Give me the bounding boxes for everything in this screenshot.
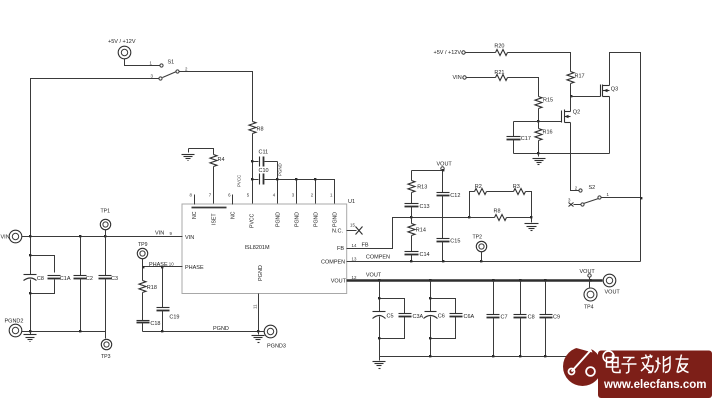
svg-text:8: 8 [190, 193, 193, 198]
svg-text:13: 13 [352, 257, 357, 262]
wire VOUT rail (pin 12, heavy) [347, 279, 603, 281]
svg-text:15: 15 [350, 223, 355, 228]
junction dots COMPEN line [410, 260, 482, 262]
wire R4 to pin 7 ISET [213, 167, 215, 205]
svg-text:R8: R8 [257, 127, 264, 133]
ground rail (input) [22, 331, 106, 333]
junction dots PHASE [142, 266, 163, 268]
transistor Q2 [562, 110, 581, 123]
svg-text:C3: C3 [111, 276, 118, 282]
svg-text:C7: C7 [501, 315, 508, 321]
junction dots VOUT rail [378, 279, 592, 282]
resistor R16 [535, 122, 553, 154]
wire loop C3A [380, 299, 405, 339]
svg-text:PGND: PGND [213, 326, 229, 332]
svg-text:C1A: C1A [60, 276, 71, 282]
test point TP3 [101, 339, 112, 360]
wire gate line to Q2 [514, 121, 562, 123]
rotated pin names top row [192, 211, 339, 228]
PGND rail to pins 4..1 [265, 180, 335, 205]
svg-text:9: 9 [170, 231, 173, 236]
resistor R20 [494, 43, 507, 55]
capacitor C1A [48, 276, 71, 283]
capacitor C13 [405, 204, 430, 224]
svg-text:PGND2: PGND2 [5, 319, 24, 325]
svg-text:5: 5 [247, 193, 250, 198]
svg-text:R17: R17 [575, 74, 585, 80]
svg-text:R18: R18 [147, 285, 157, 291]
pin 15 N.C. stub with no-connect X [332, 223, 363, 235]
capacitor C2 branch [74, 237, 93, 332]
svg-text:R8: R8 [494, 209, 501, 215]
ground (output rail) [373, 357, 386, 369]
svg-text:N.C.: N.C. [332, 228, 343, 234]
svg-text:4: 4 [273, 193, 276, 198]
svg-text:VOUT: VOUT [605, 290, 621, 296]
capacitor C12 [437, 193, 461, 239]
svg-text:R15: R15 [543, 98, 553, 104]
svg-text:R16: R16 [543, 130, 553, 136]
svg-text:VIN: VIN [185, 235, 194, 241]
wire R20 to R17 corner [508, 53, 571, 72]
pin 3 stub [296, 180, 298, 205]
terminal PGND2 [5, 319, 24, 337]
ground (right section) [533, 154, 546, 165]
svg-text:3: 3 [151, 74, 154, 79]
ground (R4 branch) [182, 149, 195, 161]
wire from +5V terminal to S1 upper contact [125, 59, 160, 66]
junction dots PVCC/PGND rails [251, 160, 316, 180]
resistor R18 [139, 267, 157, 321]
node S2/enable junction [640, 197, 642, 199]
watermark box [598, 351, 712, 398]
capacitor C5 branch (polarized) [373, 281, 394, 357]
svg-text:TP1: TP1 [101, 209, 111, 215]
svg-text:PHASE: PHASE [185, 265, 204, 271]
capacitor C3 branch [99, 237, 119, 339]
svg-text:R13: R13 [417, 185, 427, 191]
wire S1 common to PVCC feed corner [180, 72, 253, 122]
svg-text:C8: C8 [528, 315, 535, 321]
ground (input rail) [24, 332, 37, 342]
test point circle over watermark [603, 351, 614, 362]
svg-text:COMPEN: COMPEN [366, 255, 390, 261]
svg-text:C19: C19 [169, 315, 179, 321]
terminal VOUT [603, 274, 620, 295]
pin 2 stub [315, 180, 317, 205]
switch S2 [568, 185, 610, 207]
svg-text:C9: C9 [553, 315, 560, 321]
wire VIN rail down to C8 branch [30, 237, 32, 275]
svg-text:TP9: TP9 [138, 242, 148, 248]
svg-text:NC: NC [192, 211, 198, 219]
resistor R4 [210, 155, 225, 167]
svg-text:FB: FB [362, 243, 369, 249]
pin 8 stub NC [194, 195, 196, 205]
capacitor C9 branch [540, 281, 561, 357]
ground rail (output) [380, 356, 604, 358]
svg-text:C3A: C3A [413, 314, 424, 320]
svg-text:S1: S1 [168, 60, 175, 66]
net connector VIN (right section) [453, 75, 467, 81]
svg-text:S2: S2 [589, 185, 596, 191]
svg-text:2: 2 [185, 67, 188, 72]
capacitor C19 branch [157, 267, 180, 332]
svg-text:2: 2 [575, 186, 578, 191]
svg-text:TP2: TP2 [473, 235, 483, 241]
capacitor C8 (polarized input) [24, 275, 44, 332]
resistor R2 [475, 184, 514, 195]
net connector +5V/+12V (right section) [434, 50, 466, 56]
svg-text:+5V / +12V: +5V / +12V [434, 50, 462, 56]
junction dots PGND rail [161, 330, 259, 332]
svg-text:7: 7 [209, 193, 212, 198]
node VIN junction dots [29, 235, 106, 237]
node Q2 gate junction [537, 120, 539, 122]
svg-text:C15: C15 [450, 239, 460, 245]
wire +5V to R20 [466, 52, 496, 54]
svg-text:1: 1 [330, 193, 333, 198]
wire branch up to R2/R3 [470, 192, 475, 218]
net connector VOUT (rail end) [580, 269, 596, 281]
wire to R8 feedback [470, 217, 495, 219]
switch S1 [150, 60, 189, 81]
capacitor C6A [450, 314, 475, 321]
svg-text:C8: C8 [37, 276, 44, 282]
svg-text:VOUT: VOUT [437, 162, 453, 168]
wire VIN to R21 [467, 77, 496, 79]
svg-text:VIN: VIN [1, 235, 10, 241]
svg-text:R3: R3 [513, 184, 520, 190]
wire VOUT to R13 [412, 170, 443, 172]
svg-text:PGND: PGND [276, 212, 282, 227]
svg-text:R4: R4 [218, 157, 225, 163]
pin 11 PGND bottom stub [258, 294, 260, 332]
junction dots C8 loop [29, 254, 31, 294]
svg-text:C6A: C6A [464, 314, 475, 320]
svg-text:C10: C10 [259, 168, 269, 174]
wire R21 to R15 [508, 78, 539, 97]
wire ground to R4 [189, 149, 214, 155]
svg-text:1: 1 [607, 192, 610, 197]
net connector VOUT (compensation) [437, 162, 453, 193]
svg-text:+5V / +12V: +5V / +12V [108, 39, 136, 45]
svg-text:U1: U1 [348, 199, 355, 205]
svg-text:C13: C13 [420, 204, 430, 210]
svg-text:PGND3: PGND3 [267, 344, 286, 350]
svg-text:C12: C12 [450, 193, 460, 199]
svg-text:14: 14 [352, 243, 357, 248]
capacitor C3A [399, 314, 424, 321]
pin 6 stub NC [232, 195, 234, 205]
svg-text:Q2: Q2 [573, 110, 580, 116]
svg-text:R14: R14 [416, 228, 426, 234]
capacitor C10 [253, 168, 269, 185]
svg-text:VOUT: VOUT [366, 273, 382, 279]
wire COMPEN line from pin 13 [347, 261, 641, 263]
svg-text:C11: C11 [259, 150, 269, 156]
svg-text:COMPEN: COMPEN [321, 260, 345, 266]
svg-text:C2: C2 [86, 276, 93, 282]
resistor R3 [513, 184, 532, 223]
ground (pin 11) [252, 332, 265, 343]
wire loop C6A [431, 299, 456, 339]
capacitor C17 branch [507, 122, 531, 154]
power terminal +5V/+12V (top-left) [108, 39, 136, 59]
wire loop for C1A [31, 256, 55, 294]
svg-text:TP3: TP3 [101, 354, 111, 360]
ground (feedback divider) [525, 224, 539, 231]
resistor R17 [567, 72, 585, 97]
svg-text:VOUT: VOUT [331, 278, 347, 284]
pin 9 VIN stub [171, 236, 183, 238]
wire R8 to IC pin 5 PVCC [252, 134, 254, 205]
svg-text:C5: C5 [387, 314, 394, 320]
terminal VIN (left) [1, 230, 22, 243]
ground rail (right section) [514, 153, 610, 155]
svg-text:10: 10 [169, 261, 174, 266]
watermark CJK title (drawn glyphs) [607, 355, 689, 374]
node FB divider junction [410, 216, 412, 218]
svg-text:NC: NC [231, 211, 237, 219]
svg-text:PHASE: PHASE [149, 262, 168, 268]
capacitor C15 [437, 239, 461, 262]
junction dots ground rail [29, 330, 81, 332]
wire FB from pin 14 [347, 218, 470, 249]
PGND rail (bottom of IC) [143, 331, 265, 333]
capacitor C8 (output) branch [514, 281, 535, 357]
svg-text:1: 1 [150, 61, 153, 66]
pin 10 PHASE stub [171, 266, 183, 268]
svg-text:PGND: PGND [295, 212, 301, 227]
svg-text:PGND: PGND [258, 265, 264, 281]
inside top bar under NC/ISET [192, 207, 227, 209]
resistor R8 (PVCC feed) [249, 122, 264, 134]
capacitor C7 branch [487, 281, 508, 357]
svg-text:VIN: VIN [155, 231, 164, 237]
svg-text:FB: FB [337, 246, 344, 252]
svg-text:Q3: Q3 [611, 87, 618, 93]
test point TP4 [584, 281, 597, 311]
resistor R8 (feedback) [494, 209, 532, 221]
svg-text:PVCC: PVCC [250, 213, 256, 228]
test point TP2 [473, 235, 487, 262]
svg-text:PGND: PGND [333, 212, 339, 227]
capacitor C11 [253, 150, 278, 167]
terminal PGND3 [264, 325, 286, 349]
svg-text:ISET: ISET [211, 213, 217, 225]
node R8/ground junction [530, 216, 532, 218]
svg-text:VIN: VIN [453, 75, 462, 81]
svg-text:PGND: PGND [314, 212, 320, 227]
svg-text:11: 11 [253, 304, 258, 309]
wire Q3 source down to ground rail [609, 97, 611, 154]
capacitor C14 [405, 252, 430, 262]
svg-text:PGND: PGND [278, 163, 283, 176]
resistor R21 [494, 70, 507, 81]
svg-text:TP4: TP4 [584, 305, 594, 311]
resistor R15 [535, 97, 553, 122]
test point TP9 [137, 242, 147, 267]
wire junction to Q3 gate [571, 96, 601, 98]
svg-text:C6: C6 [438, 314, 445, 320]
svg-text:C18: C18 [150, 321, 160, 327]
wire Q2 source down to S2 [571, 123, 580, 191]
node gate junction [570, 95, 572, 97]
svg-text:3: 3 [568, 198, 571, 203]
junction dots output ground rail [429, 355, 546, 357]
wire PHASE [143, 266, 171, 268]
watermark logo disc [563, 343, 602, 387]
wire Q2 drain up to gate junction [570, 97, 572, 112]
wire S2 common to enable vertical [602, 197, 641, 199]
svg-text:VOUT: VOUT [580, 269, 596, 275]
svg-text:PVCC: PVCC [237, 175, 242, 187]
wire S1 lower contact to left vertical down to VIN rail [31, 79, 160, 237]
node VOUT comp junction [442, 169, 444, 171]
test point TP1 [100, 209, 110, 237]
svg-text:2: 2 [311, 193, 314, 198]
svg-text:3: 3 [292, 193, 295, 198]
VIN rail wire [22, 236, 171, 238]
capacitor C6 branch (polarized) [424, 281, 445, 357]
svg-text:www.elecfans.com: www.elecfans.com [603, 379, 706, 391]
wire Q3 drain bracket to enable vertical [610, 53, 641, 262]
svg-text:ISL8201M: ISL8201M [245, 245, 270, 251]
resistor R14 [408, 224, 426, 252]
transistor Q3 [601, 85, 619, 97]
test point TP5 (ground rail end) [603, 351, 614, 362]
capacitor C18 [137, 321, 161, 332]
resistor R13 [408, 171, 427, 204]
svg-text:6: 6 [228, 193, 231, 198]
svg-text:C14: C14 [420, 252, 430, 258]
wire C11 right to PGND rail [277, 162, 279, 180]
op-amp/module U1 ISL8201M box [182, 204, 347, 294]
svg-text:C17: C17 [521, 136, 531, 142]
junction dot R16 ground [537, 152, 539, 154]
pin 4 stub [277, 180, 279, 205]
